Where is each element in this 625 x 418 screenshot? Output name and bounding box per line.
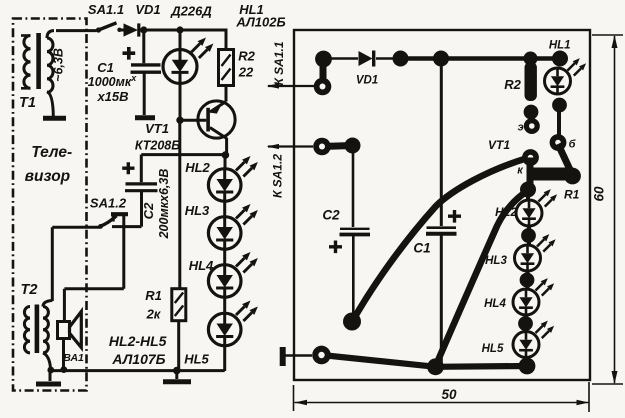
svg-text:Д226Д: Д226Д xyxy=(170,4,212,19)
svg-text:С1: С1 xyxy=(413,241,430,256)
svg-text:HL1: HL1 xyxy=(549,40,571,52)
svg-text:R2: R2 xyxy=(504,77,521,92)
svg-text:К SA1.2: К SA1.2 xyxy=(271,154,285,198)
svg-text:VD1: VD1 xyxy=(135,2,160,17)
svg-text:HL2-HL5: HL2-HL5 xyxy=(109,333,167,349)
svg-text:АЛ102Б: АЛ102Б xyxy=(235,15,285,30)
svg-text:Теле-: Теле- xyxy=(31,144,72,161)
svg-text:АЛ107Б: АЛ107Б xyxy=(111,351,165,367)
svg-text:2к: 2к xyxy=(146,307,162,322)
svg-text:VD1: VD1 xyxy=(356,75,378,87)
svg-text:60: 60 xyxy=(592,186,607,202)
svg-text:С2: С2 xyxy=(322,208,340,223)
svg-text:С1: С1 xyxy=(97,60,114,75)
svg-text:HL4: HL4 xyxy=(189,258,214,273)
svg-text:1000мкх: 1000мкх xyxy=(88,73,137,89)
svg-text:ВА1: ВА1 xyxy=(63,352,84,364)
svg-text:VT1: VT1 xyxy=(488,138,510,152)
svg-text:визор: визор xyxy=(25,168,70,185)
svg-text:HL2: HL2 xyxy=(495,207,517,219)
svg-text:R1: R1 xyxy=(564,188,580,202)
svg-text:HL3: HL3 xyxy=(185,203,210,218)
svg-text:SA1.2: SA1.2 xyxy=(90,196,127,211)
svg-text:HL2: HL2 xyxy=(185,160,210,175)
svg-text:КТ208Б: КТ208Б xyxy=(135,139,180,153)
svg-text:22: 22 xyxy=(238,65,254,80)
svg-text:200мкх6,3В: 200мкх6,3В xyxy=(157,169,171,240)
svg-text:HL5: HL5 xyxy=(184,352,209,367)
svg-text:HL5: HL5 xyxy=(482,343,504,355)
svg-text:К SA1.1: К SA1.1 xyxy=(272,41,286,85)
svg-text:Т2: Т2 xyxy=(21,282,38,298)
svg-text:э: э xyxy=(518,122,524,134)
svg-text:х15В: х15В xyxy=(96,89,128,104)
svg-text:R2: R2 xyxy=(238,49,255,64)
svg-text:50: 50 xyxy=(441,387,457,402)
svg-text:R1: R1 xyxy=(145,288,162,303)
svg-text:HL3: HL3 xyxy=(485,255,507,267)
svg-text:Т1: Т1 xyxy=(19,95,36,111)
svg-text:~6,3В: ~6,3В xyxy=(52,48,66,82)
svg-text:SA1.1: SA1.1 xyxy=(88,2,124,17)
svg-text:VT1: VT1 xyxy=(145,121,169,136)
svg-text:б: б xyxy=(569,139,577,151)
svg-text:HL4: HL4 xyxy=(484,298,506,310)
svg-text:С2: С2 xyxy=(141,202,156,219)
